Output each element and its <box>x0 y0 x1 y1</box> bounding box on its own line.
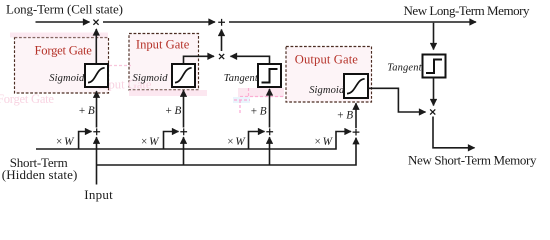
svg-text:Input Gate: Input Gate <box>136 38 190 52</box>
wire: input up into tangent junction <box>269 137 271 165</box>
svg-text:Forget Gate: Forget Gate <box>0 92 54 106</box>
activation box: output sigmoid <box>344 74 368 98</box>
svg-text:(Hidden state): (Hidden state) <box>2 167 78 182</box>
operator: add (forget junction) <box>93 128 100 135</box>
svg-text:+ B: + B <box>166 105 182 117</box>
junction: forget weight tap <box>79 132 92 150</box>
wire: input-gate multiply up to add <box>221 30 223 52</box>
svg-text:Sigmoid: Sigmoid <box>309 85 345 96</box>
ghost pink fill left of tangent +B <box>238 88 284 97</box>
svg-text:Sigmoid: Sigmoid <box>49 73 85 84</box>
operator: multiply (output) <box>430 109 435 114</box>
ghost pink fill below input gate box <box>129 90 207 96</box>
svg-text:Tangent: Tangent <box>387 62 422 73</box>
junction: tangent weight tap <box>249 132 265 150</box>
output gate dashed box <box>286 47 372 103</box>
operator: add (tangent junction) <box>266 128 273 135</box>
svg-text:Tangent: Tangent <box>224 73 259 84</box>
junction: input weight tap <box>164 132 179 150</box>
wire: output multiply down-right to new short term <box>433 117 475 148</box>
wire: output junction up to sigmoid <box>355 103 357 128</box>
svg-text:Input: Input <box>84 187 113 202</box>
ghost cyan patch near tangent <box>233 97 250 103</box>
svg-text:× W: × W <box>56 136 75 148</box>
wire: forget sigmoid output up to multiply <box>95 29 97 64</box>
sigmoid curve (forget) <box>88 68 105 83</box>
operator: add (cell update) <box>218 19 225 26</box>
wire: input line <box>97 138 357 185</box>
svg-text:Sigmoid: Sigmoid <box>133 73 169 84</box>
wire: input sigmoid output to multiply <box>184 56 215 64</box>
forget gate dashed box <box>15 38 109 94</box>
wire: tangent junction up to tangent box <box>269 89 271 128</box>
operator: multiply (forget) <box>93 20 98 25</box>
activation box: input sigmoid <box>172 64 195 87</box>
wire: output sigmoid right-down into multiply <box>368 88 426 112</box>
wire: tangent output to multiply <box>231 56 270 64</box>
operator: add (output junction) <box>353 129 360 136</box>
ghost magenta dashed corner below tangent <box>234 100 250 113</box>
operator: multiply (input gate) <box>219 54 224 59</box>
wire: cell state add to new long term <box>229 21 476 23</box>
ghost pink fill above forget gate box <box>10 33 108 38</box>
svg-text:× W: × W <box>315 136 334 148</box>
svg-text:New Long-Term Memory: New Long-Term Memory <box>404 3 531 18</box>
svg-text:× W: × W <box>141 136 160 148</box>
svg-text:+ B: + B <box>337 109 353 121</box>
activation box: forget sigmoid <box>85 64 108 87</box>
ghost pink dashes right of forget box <box>109 65 131 67</box>
svg-text:New Short-Term Memory: New Short-Term Memory <box>408 152 537 167</box>
wire: tangent down to output multiply <box>433 78 435 106</box>
svg-text:Long-Term (Cell state): Long-Term (Cell state) <box>6 2 123 17</box>
sigmoid curve (input) <box>175 68 192 83</box>
wire: input up into forget junction <box>96 137 98 165</box>
ghost magenta dashed box edge near output gate <box>240 88 283 97</box>
svg-text:Forget Gate: Forget Gate <box>35 44 93 58</box>
svg-text:+ B: + B <box>79 105 95 117</box>
activation box: new-memory tangent <box>423 55 446 78</box>
svg-text:× W: × W <box>227 136 246 148</box>
wire: hidden state line <box>36 132 351 150</box>
wire: input up into input junction <box>183 137 185 165</box>
step curve (cell tangent) <box>262 69 278 83</box>
sigmoid curve (output) <box>347 79 365 94</box>
svg-text:Output Gate: Output Gate <box>295 53 359 67</box>
wire: input junction up to sigmoid <box>183 90 185 127</box>
step curve (new-memory tangent) <box>426 60 442 74</box>
wire: cell state from label to multiply <box>36 21 90 23</box>
activation box: cell tangent <box>258 64 281 87</box>
svg-text:+ B: + B <box>251 106 267 118</box>
wire: cell state multiply to add <box>103 21 215 23</box>
wire: branch from cell state line down into tangent box <box>433 23 435 50</box>
input gate dashed box <box>129 34 199 91</box>
wire: forget junction up to sigmoid <box>96 91 98 127</box>
operator: add (input junction) <box>180 128 187 135</box>
